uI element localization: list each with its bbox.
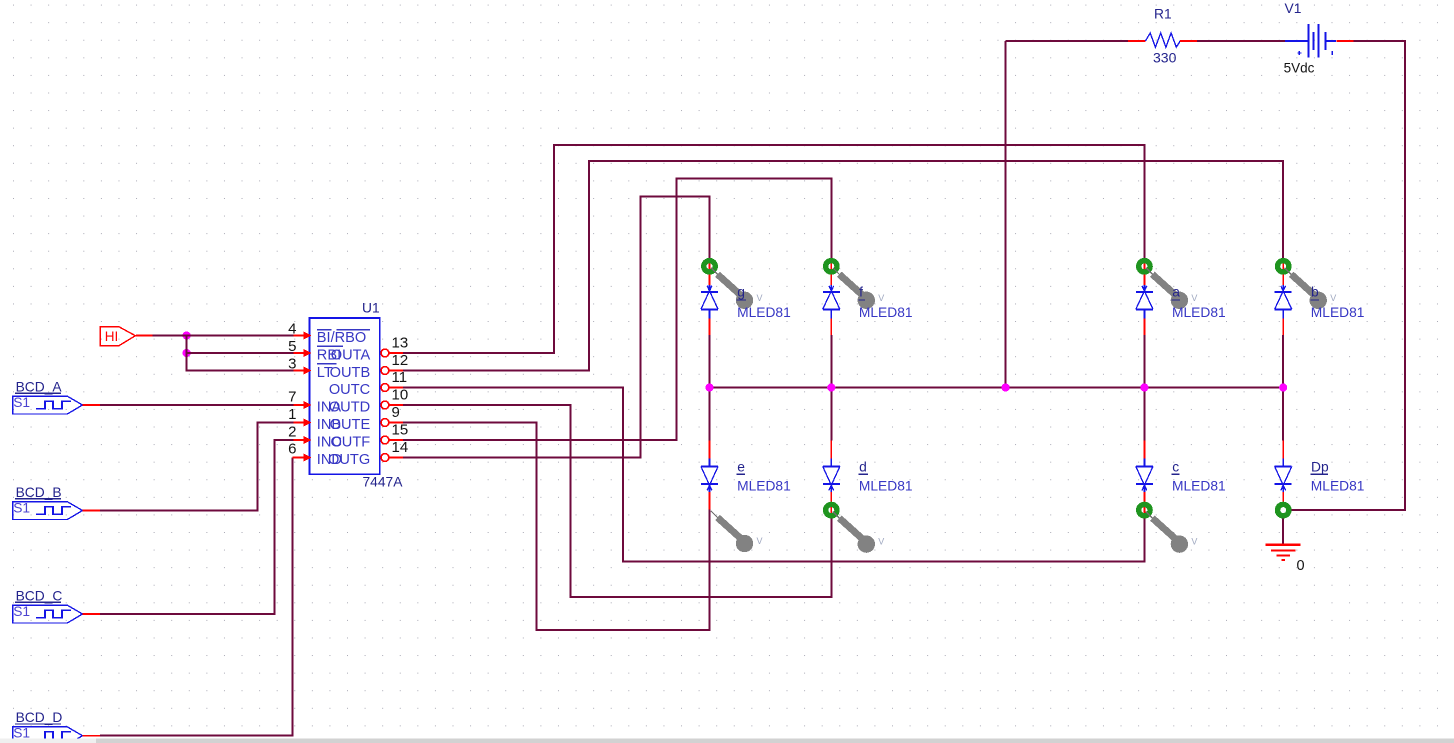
pin 10 output bubble (OUTD) [381, 401, 389, 409]
LED e (MLED81), bottom row [701, 440, 718, 509]
svg-text:V: V [878, 537, 884, 547]
marker donut at LED d cathode [823, 502, 840, 519]
svg-text:5: 5 [288, 338, 296, 355]
svg-text:15: 15 [392, 421, 409, 438]
wire: common anode bus [710, 387, 1284, 389]
svg-text:4: 4 [288, 321, 296, 338]
junction on anode bus x=1144.4 [1140, 383, 1148, 391]
svg-text:OUTA: OUTA [331, 348, 371, 364]
LED a (MLED81), top row [1136, 285, 1153, 335]
pin 2 input arrow (INC) [304, 436, 312, 444]
svg-text:c: c [1172, 460, 1179, 475]
LED f (MLED81), top row [823, 285, 840, 335]
marker donut at LED Dp cathode [1275, 502, 1292, 519]
svg-text:BCD_B: BCD_B [16, 485, 62, 500]
svg-text:f: f [859, 285, 863, 300]
svg-text:V: V [757, 293, 763, 303]
voltage probe at LED b [1285, 268, 1337, 309]
svg-text:MLED81: MLED81 [737, 478, 791, 493]
digital stimulus BCD_A (S1) [13, 379, 83, 414]
svg-text:MLED81: MLED81 [737, 305, 791, 320]
svg-text:9: 9 [392, 404, 400, 421]
wire: bus to LED Dp anode [1282, 388, 1284, 441]
pin 7 input arrow (INA) [304, 401, 312, 409]
svg-text:OUTC: OUTC [329, 382, 370, 398]
pin 3 input arrow (LT) [304, 366, 312, 374]
junction at HI/pin5 [183, 349, 191, 357]
wire: HI branch down to pin3 [187, 353, 294, 371]
svg-text:MLED81: MLED81 [859, 478, 913, 493]
svg-text:S1: S1 [13, 604, 30, 619]
wire: BCD_B to pin1 [83, 510, 101, 512]
wire: R1 to V1 [1197, 40, 1285, 42]
labels for LED g [737, 285, 791, 321]
wire: pin13 OUTA to LED a [403, 145, 1144, 353]
svg-text:S1: S1 [13, 726, 30, 741]
svg-text:MLED81: MLED81 [1172, 478, 1226, 493]
digital stimulus BCD_B (S1) [13, 485, 83, 520]
svg-text:g: g [737, 285, 745, 300]
svg-text:S1: S1 [13, 395, 30, 410]
pin 13 output bubble (OUTA) [381, 349, 389, 357]
wire: BCD_D to pin6 [83, 735, 101, 737]
svg-text:V: V [757, 536, 763, 546]
resistor R1 [1128, 33, 1197, 47]
svg-text:V1: V1 [1285, 1, 1302, 16]
wire: LED Dp cathode to ground [1282, 518, 1284, 545]
overline RBI [317, 345, 343, 347]
ground 0 [1266, 545, 1301, 560]
svg-text:V: V [878, 293, 884, 303]
wire: pin14 OUTG to LED g [403, 197, 710, 458]
overline LT [317, 363, 336, 365]
pin 1 input arrow (INB) [304, 418, 312, 426]
pin 9 output bubble (OUTE) [381, 419, 389, 427]
svg-text:R1: R1 [1154, 7, 1172, 22]
labels for LED e [737, 460, 791, 494]
wire: LED b anode to bus [1282, 335, 1284, 388]
labels for LED c [1172, 460, 1226, 494]
svg-text:OUTF: OUTF [330, 435, 370, 451]
svg-text:MLED81: MLED81 [1172, 305, 1226, 320]
pin 11 output bubble (OUTC) [381, 384, 389, 392]
svg-text:OUTE: OUTE [330, 417, 371, 433]
wire: bus to LED c anode [1143, 388, 1145, 441]
marker donut at LED a cathode [1136, 258, 1153, 275]
digital stimulus BCD_C (S1) [13, 588, 83, 623]
wire: pin9 OUTE to LED e [403, 423, 710, 631]
wire: V1 to right edge, down to DP cathode [1292, 41, 1405, 510]
wire: bus to LED e anode [709, 388, 711, 441]
pin 15 output bubble (OUTF) [381, 436, 389, 444]
svg-text:14: 14 [392, 439, 409, 456]
junction on anode bus x=1005.6 [1002, 383, 1010, 391]
svg-text:b: b [1311, 285, 1319, 300]
digital stimulus BCD_D (S1) [13, 710, 83, 743]
labels for LED Dp [1310, 460, 1364, 494]
labels for LED d [859, 460, 913, 494]
svg-text:7447A: 7447A [363, 475, 404, 490]
svg-text:MLED81: MLED81 [859, 305, 913, 320]
LED c (MLED81), bottom row [1136, 440, 1153, 502]
junction on anode bus x=709.5 [705, 383, 713, 391]
svg-text:10: 10 [392, 386, 409, 403]
wire: BCD_C to pin2 [83, 613, 101, 615]
pin 6 input arrow (IND) [304, 453, 312, 461]
svg-text:OUTD: OUTD [329, 400, 370, 416]
svg-text:HI: HI [105, 329, 119, 344]
svg-text:BCD_D: BCD_D [16, 710, 63, 725]
labels for LED a [1172, 285, 1226, 321]
labels for LED b [1310, 285, 1364, 321]
wire: pin11 OUTC to LED c [403, 388, 1144, 562]
svg-text:d: d [859, 460, 867, 475]
svg-text:BCD_A: BCD_A [16, 379, 63, 394]
scrollbar track [0, 739, 1454, 743]
svg-text:7: 7 [288, 389, 296, 406]
voltage probe at LED c [1146, 512, 1198, 553]
voltage probe at LED a [1146, 268, 1198, 309]
svg-text:S1: S1 [13, 500, 30, 515]
wire: pin12 OUTB to LED b [403, 161, 1283, 371]
svg-text:11: 11 [392, 369, 408, 386]
wire: LED f anode to bus [830, 335, 832, 388]
svg-text:OUTG: OUTG [328, 452, 370, 468]
voltage probe at LED e [711, 511, 763, 552]
svg-text:e: e [737, 460, 745, 475]
LED Dp (MLED81), bottom row [1275, 440, 1292, 502]
marker donut at LED b cathode [1275, 258, 1292, 275]
svg-text:330: 330 [1153, 50, 1177, 66]
svg-text:a: a [1172, 285, 1180, 300]
svg-text:1: 1 [288, 406, 296, 423]
svg-text:0: 0 [1297, 558, 1305, 574]
voltage probe at LED f [833, 268, 885, 309]
HI power symbol [100, 327, 135, 346]
svg-text:U1: U1 [362, 300, 380, 315]
junction on anode bus x=831.3 [827, 383, 835, 391]
svg-text:3: 3 [288, 356, 296, 373]
voltage source V1 (battery) [1285, 24, 1354, 58]
voltage probe at LED g [711, 268, 763, 309]
LED g (MLED81), top row [701, 285, 718, 335]
wire: BCD_A to pin7 [83, 404, 101, 406]
overline BI [317, 329, 332, 331]
svg-text:13: 13 [392, 334, 409, 351]
marker donut at LED g cathode [701, 258, 718, 275]
wire: HI branch down to pin5 [187, 336, 294, 354]
LED b (MLED81), top row [1275, 285, 1292, 335]
labels for LED f [859, 285, 913, 321]
svg-text:6: 6 [288, 441, 296, 458]
svg-text:MLED81: MLED81 [1311, 305, 1365, 320]
marker donut at LED f cathode [823, 258, 840, 275]
voltage probe at LED d [833, 512, 885, 553]
overline RBO [336, 329, 370, 331]
junction on anode bus x=1283.2 [1279, 383, 1287, 391]
svg-text:OUTB: OUTB [330, 365, 371, 381]
svg-text:BI/RBO: BI/RBO [317, 330, 366, 346]
svg-text:BCD_C: BCD_C [16, 588, 63, 603]
svg-text:5Vdc: 5Vdc [1284, 60, 1315, 75]
wire: LED a anode to bus [1143, 335, 1145, 388]
svg-text:Dp: Dp [1311, 460, 1329, 475]
wire: LED g anode to bus [709, 335, 711, 388]
wire: HI to pin4 [136, 335, 153, 337]
svg-text:V: V [1191, 537, 1197, 547]
wire: node from R1 left to anode bus, top segment [1006, 40, 1128, 42]
wire: vertical from top wire down to anode bus [1005, 41, 1007, 388]
wire: pin10 OUTD to LED d [403, 405, 831, 597]
pin 4 input arrow (BI/RBO) [304, 331, 312, 339]
svg-text:12: 12 [392, 352, 409, 369]
pin 12 output bubble (OUTB) [381, 367, 389, 375]
svg-text:V: V [1330, 293, 1336, 303]
wire: pin15 OUTF to LED f [403, 179, 831, 440]
marker donut at LED c cathode [1136, 502, 1153, 519]
junction at HI/pin4 [183, 331, 191, 339]
svg-text:2: 2 [288, 424, 296, 441]
svg-text:MLED81: MLED81 [1311, 478, 1365, 493]
op-amp/decoder U1 7447A body [310, 318, 380, 474]
pin 5 input arrow (RBI) [304, 349, 312, 357]
scrollbar thumb [0, 739, 96, 743]
pin 14 output bubble (OUTG) [381, 454, 389, 462]
svg-text:V: V [1191, 293, 1197, 303]
wire: bus to LED d anode [830, 388, 832, 441]
LED d (MLED81), bottom row [823, 440, 840, 502]
